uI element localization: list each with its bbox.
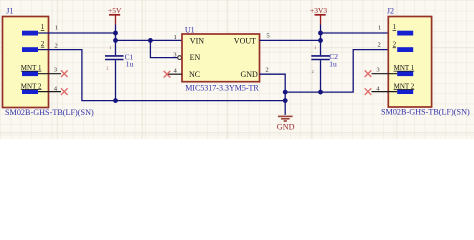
node H junction dot (C1 / lower rail) (113, 98, 118, 103)
connector J1 body (3, 17, 49, 108)
C1 pin number 2 (106, 66, 108, 71)
svg-text:2: 2 (393, 40, 397, 48)
node D junction dot (+3V3 / J2.1) (318, 31, 323, 36)
svg-text:EN: EN (190, 53, 201, 62)
U1 pin number 3 (173, 51, 177, 58)
svg-text:GND: GND (241, 70, 259, 79)
node C junction dot (VIN / EN) (148, 38, 153, 43)
ground net label GND (277, 123, 295, 132)
J2 pin 4 stub (372, 91, 398, 93)
J2 pin name 1 (393, 23, 397, 31)
J2 part number label (381, 108, 470, 117)
node E junction dot (VOUT / C2) (318, 38, 323, 43)
C2 pin number 1 (314, 45, 316, 50)
J1 pad pin 4 (22, 89, 38, 94)
wire node B to VIN (116, 39, 183, 41)
J1 pin number 3 (54, 66, 58, 73)
J2 pin name MNT 2 (394, 82, 415, 90)
ground symbol (278, 116, 293, 121)
svg-text:+3V3: +3V3 (310, 6, 327, 15)
svg-text:+5V: +5V (108, 6, 122, 15)
wire J1 pin1 to +5V node (38, 32, 116, 34)
svg-text:MNT 2: MNT 2 (21, 82, 42, 90)
svg-text:VIN: VIN (190, 36, 204, 45)
svg-text:MNT 1: MNT 1 (21, 64, 42, 72)
svg-text:1: 1 (378, 24, 381, 31)
C2 value label (329, 60, 337, 69)
connector J2 designator label (387, 7, 394, 16)
J1 pin 4 stub (38, 91, 61, 93)
svg-text:SM02B-GHS-TB(LF)(SN): SM02B-GHS-TB(LF)(SN) (5, 108, 94, 117)
U1 pin name VIN (190, 36, 204, 45)
J1 pad pin 1 (22, 31, 38, 36)
U1 NC pin stub (167, 73, 182, 75)
U1 pin number 5 (266, 33, 270, 40)
C1 designator label (125, 52, 134, 61)
svg-text:1u: 1u (126, 60, 134, 69)
svg-text:2: 2 (265, 66, 268, 73)
svg-text:MNT 2: MNT 2 (394, 82, 415, 90)
EN pin inversion bubble (178, 56, 182, 60)
U1 designator label (185, 25, 195, 34)
power symbol +3V3 (310, 6, 327, 25)
svg-text:MNT 1: MNT 1 (394, 64, 415, 72)
svg-text:1: 1 (393, 23, 397, 31)
svg-text:1: 1 (41, 23, 45, 31)
big grid lines (0, 0, 474, 139)
svg-text:1: 1 (109, 45, 111, 50)
wire ground rail to J2 pin 2 (285, 50, 397, 93)
svg-text:GND: GND (277, 123, 295, 132)
J2 pin name 2 (393, 40, 397, 48)
svg-text:5: 5 (266, 33, 270, 40)
wire U1 GND pin to ground rail (260, 74, 286, 115)
svg-text:SM02B-GHS-TB(LF)(SN): SM02B-GHS-TB(LF)(SN) (381, 108, 470, 117)
svg-text:2: 2 (378, 41, 381, 48)
J2 pad pin 3 (397, 71, 413, 76)
U1 pin name VOUT (234, 36, 256, 45)
J2 pad pin 4 (397, 89, 413, 94)
svg-text:MIC5317-3.3YM5-TR: MIC5317-3.3YM5-TR (185, 84, 259, 93)
J1 pin name MNT 1 (21, 64, 42, 72)
J1 pin number 4 (54, 85, 58, 92)
power symbol +5V (108, 6, 122, 25)
capacitor C1 (105, 40, 124, 100)
svg-text:2: 2 (41, 40, 45, 48)
connector J2 body (388, 17, 431, 108)
J2 pin number 2 (378, 41, 381, 48)
svg-text:4: 4 (174, 68, 178, 75)
J2 pad pin 1 (397, 31, 413, 36)
wire J1 pin2 loop to ground rail (38, 50, 285, 101)
J2 pin name MNT 1 (394, 64, 415, 72)
U1 pin number 4 (174, 68, 178, 75)
J1 part number label (5, 108, 94, 117)
J2 pin number 4 (376, 85, 380, 92)
wire +3V3 node vertical (320, 25, 322, 41)
capacitor C2 (311, 40, 330, 92)
wire VOUT to +3V3 node (260, 39, 321, 41)
svg-text:VOUT: VOUT (234, 36, 256, 45)
U1 pin name GND (241, 70, 259, 79)
no-connect X on J2 pin 4 (365, 88, 372, 95)
svg-text:U1: U1 (185, 25, 195, 34)
J1 pad pin 3 (22, 71, 38, 76)
wire node C down to EN pin (150, 40, 177, 57)
svg-text:2: 2 (55, 43, 58, 50)
regulator U1 body (182, 34, 260, 82)
C1 pin number 1 (109, 45, 111, 50)
node A junction dot (+5V / J1.1) (113, 31, 118, 36)
node B junction dot (VIN / C1) (113, 38, 118, 43)
J1 pin name MNT 2 (21, 82, 42, 90)
J1 pin name 1 (41, 23, 45, 31)
node G junction dot (C2 / rail) (318, 90, 323, 95)
svg-text:J2: J2 (387, 7, 394, 16)
no-connect X on J1 pin 4 (61, 88, 68, 95)
wire +5V stem to node A (115, 25, 117, 41)
U1 pin name NC (189, 70, 200, 79)
svg-text:1: 1 (55, 25, 58, 32)
connector J1 designator label (6, 7, 13, 16)
no-connect X on J2 pin 3 (365, 70, 372, 77)
no-connect X on U1 NC pin (164, 71, 171, 78)
J2 pin number 3 (376, 66, 380, 73)
J2 pin 3 stub (372, 73, 398, 75)
C1 value label (126, 60, 134, 69)
J2 pad pin 2 (397, 47, 413, 52)
svg-text:1u: 1u (329, 60, 337, 69)
J2 pin number 1 (378, 24, 381, 31)
svg-text:NC: NC (189, 70, 200, 79)
svg-text:2: 2 (106, 66, 108, 71)
U1 pin number 2 (265, 66, 268, 73)
node F junction dot (GND / C2 rail) (283, 90, 288, 95)
svg-text:J1: J1 (6, 7, 13, 16)
svg-text:1: 1 (174, 34, 177, 41)
J1 pin 3 stub (38, 73, 61, 75)
svg-text:2: 2 (312, 69, 314, 74)
J1 pin name 2 (41, 40, 45, 48)
no-connect X on J1 pin 3 (61, 70, 68, 77)
J1 pin number 2 (55, 43, 58, 50)
svg-text:3: 3 (376, 66, 380, 73)
node I junction dot (lower rail / GND stem) (283, 98, 288, 103)
U1 pin name EN (190, 53, 201, 62)
J1 pad pin 2 (22, 47, 38, 52)
C2 pin number 2 (312, 69, 314, 74)
U1 pin number 1 (174, 34, 177, 41)
U1 part number label (185, 84, 259, 93)
wire +3V3 node to J2 pin 1 (321, 32, 398, 34)
svg-text:1: 1 (314, 45, 316, 50)
C2 designator label (329, 52, 338, 61)
J1 pin number 1 (55, 25, 58, 32)
